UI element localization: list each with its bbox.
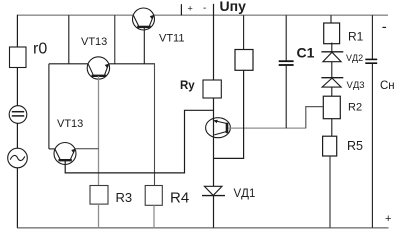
- wire R2 to R5: [331, 119, 333, 137]
- svg-text:Ry: Ry: [180, 80, 195, 92]
- svg-text:R4: R4: [170, 190, 189, 207]
- wire R3 to bottom bus: [98, 204, 100, 228]
- wire top bus down to C1: [285, 15, 287, 61]
- resistor Ry: [203, 80, 221, 98]
- svg-text:R1: R1: [348, 30, 364, 44]
- wire AC source to bottom bus: [16, 168, 18, 228]
- svg-text:-: -: [382, 19, 387, 36]
- wire DC to AC source: [16, 123, 18, 148]
- wire r0 to DC source: [16, 68, 18, 106]
- diode VD3: [321, 78, 343, 87]
- svg-text:VT13: VT13: [57, 118, 83, 130]
- svg-text:VT13: VT13: [81, 36, 107, 48]
- wire collector line to right (grey): [228, 127, 306, 129]
- wire VD2 to VD3: [331, 62, 333, 78]
- svg-text:r0: r0: [33, 41, 47, 58]
- AC source G2: [8, 148, 28, 168]
- svg-text:-: -: [203, 3, 206, 14]
- resistor R5: [323, 136, 337, 156]
- wire Cn to bottom bus: [371, 63, 373, 228]
- capacitor C1: [279, 61, 294, 65]
- wire top bus (minus rail): [17, 14, 388, 16]
- wire main column from above bus down to Ry: [213, 4, 215, 80]
- transistor VT13 lower: [54, 143, 76, 165]
- wire VD3 to R2: [331, 87, 333, 96]
- wire down to VT13 lower at x=48.9: [48, 64, 50, 149]
- wire top bus to rail at x=114.8: [114, 15, 116, 64]
- wire from top bus down at x=68.8: [68, 15, 70, 64]
- wire rail down to R4 at x=154.5: [154, 64, 156, 186]
- resistor (unlabeled): [235, 50, 253, 71]
- wire VT13 upper base down to R3: [98, 76, 100, 186]
- svg-text:Сн: Сн: [380, 80, 395, 92]
- resistor R3: [90, 186, 108, 205]
- transistor VT11: [133, 8, 155, 30]
- wire horizontal collector rail y=63.8 left: [49, 63, 88, 65]
- transistor VT13 upper: [87, 57, 109, 79]
- wire left column top: [16, 15, 18, 47]
- svg-text:R5: R5: [347, 139, 363, 153]
- svg-text:VT11: VT11: [159, 33, 184, 45]
- svg-text:VД2: VД2: [346, 53, 363, 63]
- wire right edge column top: [371, 15, 373, 59]
- svg-text:VД1: VД1: [234, 188, 256, 200]
- wire VT13 lower left lead: [49, 148, 56, 150]
- capacitor Cn: [365, 59, 377, 63]
- wire emitter rail y=63.8 right of VT13: [109, 63, 155, 65]
- diode VD1: [202, 186, 225, 195]
- wire VT11 base down: [143, 27, 145, 64]
- wire jog up to R2: [306, 107, 323, 129]
- diode VD2: [321, 52, 343, 62]
- svg-text:R2: R2: [348, 102, 362, 114]
- wire R1 to VD2: [331, 43, 333, 52]
- resistor R2: [323, 96, 340, 119]
- wire C1 down to collector line: [285, 65, 287, 128]
- resistor r0: [10, 47, 27, 68]
- wire VD1 to bottom bus: [213, 196, 215, 228]
- svg-text:+: +: [385, 213, 391, 225]
- resistor R1: [324, 23, 340, 44]
- resistor R4: [145, 186, 162, 206]
- wire VT13 lower right lead to node: [75, 148, 99, 150]
- wire VT13 lower base loop to main column: [65, 110, 213, 173]
- wire R5 to bottom bus: [329, 156, 331, 228]
- wire bottom bus (plus rail): [17, 227, 389, 229]
- svg-text:+: +: [188, 4, 193, 14]
- svg-text:Uпу: Uпу: [220, 0, 247, 14]
- wire top bus down to R box at x=243.6: [243, 15, 245, 49]
- svg-text:R3: R3: [116, 190, 133, 205]
- node tick above bus (plus mark): [180, 4, 182, 15]
- wire Ry to VD1 through transistor: [213, 98, 215, 186]
- wire R box down and left to emitter column: [214, 70, 244, 158]
- wire R4 to bottom bus: [153, 205, 155, 228]
- svg-text:C1: C1: [297, 45, 315, 61]
- svg-text:VД3: VД3: [347, 80, 365, 91]
- transistor VT (center, rotated): [206, 118, 231, 138]
- DC source G1: [9, 106, 27, 124]
- wire top bus to R1: [330, 15, 332, 23]
